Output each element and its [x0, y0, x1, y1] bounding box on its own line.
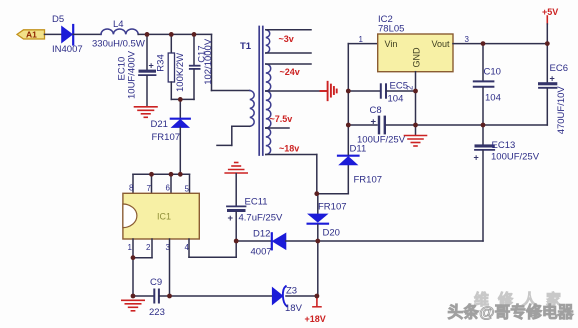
- svg-text:+: +: [474, 153, 479, 163]
- svg-text:~3v: ~3v: [279, 34, 294, 44]
- svg-text:D20: D20: [323, 228, 340, 239]
- capacitor EC10: [146, 34, 148, 69]
- svg-text:EC13: EC13: [492, 140, 516, 151]
- earth symbol on center tap: [321, 82, 337, 100]
- ground below EC10: [135, 107, 158, 118]
- IC2 78L05 regulator body: [378, 34, 453, 72]
- svg-text:2: 2: [146, 243, 151, 252]
- svg-text:C8: C8: [370, 105, 382, 116]
- capacitor EC5: [348, 90, 380, 92]
- ground below IC2: [405, 136, 427, 147]
- wire D11 cathode up to IC2 Vin node: [347, 44, 349, 155]
- svg-text:+: +: [228, 213, 234, 224]
- svg-text:6: 6: [166, 184, 171, 193]
- svg-text:D21: D21: [151, 119, 168, 130]
- svg-text:L4: L4: [113, 19, 124, 30]
- svg-text:1: 1: [128, 243, 133, 252]
- svg-text:GND: GND: [412, 47, 422, 68]
- svg-text:10UF/400V: 10UF/400V: [127, 50, 138, 99]
- svg-text:EC11: EC11: [245, 197, 268, 208]
- wire D21 to IC1 top pin rail: [133, 173, 190, 175]
- capacitor EC11: [235, 174, 237, 206]
- svg-text:100UF/25V: 100UF/25V: [491, 152, 540, 163]
- svg-text:FR107: FR107: [152, 132, 181, 143]
- wire bottom rail EC13 to D20: [318, 240, 483, 242]
- svg-text:+18V: +18V: [305, 314, 326, 324]
- svg-text:5: 5: [185, 185, 190, 194]
- capacitor EC13: [482, 125, 484, 144]
- capacitor EC6: [546, 44, 548, 82]
- svg-text:78L05: 78L05: [378, 24, 404, 35]
- svg-text:IN4007: IN4007: [52, 44, 83, 55]
- node +18V: [316, 296, 318, 307]
- wire secondary lead 2: [266, 52, 311, 54]
- IC1 pin 6 stub: [170, 174, 172, 193]
- svg-text:C10: C10: [484, 67, 501, 78]
- ground below IC1 pin 1: [122, 300, 144, 311]
- svg-text:A1: A1: [26, 30, 37, 40]
- diode D21: [179, 99, 181, 118]
- inductor L4: [101, 29, 138, 34]
- svg-text:~7.5v: ~7.5v: [270, 114, 293, 124]
- IC1 pin 1 wire down to ground: [132, 239, 134, 296]
- svg-text:~24v: ~24v: [280, 67, 300, 77]
- svg-text:C9: C9: [150, 277, 162, 288]
- wire IC2 GND pin down: [415, 72, 417, 135]
- svg-text:1: 1: [359, 35, 364, 44]
- IC1 pin 3 wire: [169, 239, 171, 296]
- wire corner down to primary: [211, 34, 213, 90]
- wire A1 to D5: [45, 33, 63, 35]
- capacitor C8: [348, 124, 377, 126]
- svg-text:FR107: FR107: [354, 175, 383, 186]
- svg-text:Z3: Z3: [286, 286, 297, 297]
- svg-text:EC6: EC6: [550, 63, 568, 74]
- wire ground rail to right: [416, 124, 548, 126]
- svg-text:+5V: +5V: [542, 7, 558, 17]
- svg-text:头条@哥专修电器: 头条@哥专修电器: [448, 303, 574, 322]
- transformer T1 core: [258, 27, 260, 156]
- IC1 pin 5 stub: [189, 174, 191, 193]
- svg-text:3: 3: [465, 35, 470, 44]
- transformer secondary winding 24v: [266, 64, 271, 91]
- IC1 pin 7 stub: [151, 174, 153, 193]
- diode D11: [340, 157, 358, 165]
- svg-text:+: +: [550, 74, 555, 84]
- svg-text:100K/2W: 100K/2W: [175, 53, 186, 92]
- wire primary bottom lead: [232, 125, 250, 127]
- svg-text:104: 104: [485, 93, 501, 104]
- svg-text:+: +: [371, 117, 377, 128]
- IC1 pin 2 wire: [151, 239, 153, 258]
- transformer secondary winding 7.5v: [266, 91, 271, 128]
- wire Vin node to IC2 pin 1: [348, 43, 377, 45]
- svg-text:104: 104: [388, 94, 404, 105]
- transformer secondary winding 18v: [266, 128, 271, 155]
- svg-text:470UF/10V: 470UF/10V: [556, 86, 567, 135]
- svg-text:Vin: Vin: [385, 39, 398, 49]
- zener Z3: [272, 288, 282, 305]
- transformer T1 primary winding: [250, 91, 254, 127]
- wire top rail L4 to corner: [138, 33, 211, 35]
- diode D5: [62, 27, 73, 43]
- wire C9 to Z3: [160, 295, 273, 297]
- svg-text:~18v: ~18v: [279, 144, 299, 154]
- svg-text:D5: D5: [52, 14, 64, 25]
- diode D20: [317, 194, 319, 214]
- svg-text:7: 7: [147, 184, 152, 193]
- svg-text:18V: 18V: [285, 303, 303, 314]
- svg-text:EC5: EC5: [390, 81, 408, 92]
- capacitor C10: [482, 44, 484, 81]
- wire secondary lead 3: [266, 63, 311, 65]
- wire IC2 pin 3 rail: [453, 43, 547, 45]
- wire R34 bottom to C17 bottom: [171, 98, 194, 100]
- svg-text:FR107: FR107: [318, 202, 347, 213]
- svg-text:223: 223: [149, 307, 165, 318]
- wire node to D11 branch: [317, 193, 349, 195]
- svg-text:Vout: Vout: [432, 39, 451, 49]
- wire ground node to C9: [133, 295, 154, 297]
- op-amp IC1 body: [123, 193, 199, 239]
- wire D5 to L4: [73, 33, 101, 35]
- svg-text:D12: D12: [253, 229, 270, 240]
- wire secondary lead top: [266, 29, 311, 31]
- inverted ground above EC11: [225, 163, 247, 174]
- svg-text:4.7uF/25V: 4.7uF/25V: [239, 213, 283, 224]
- svg-text:+: +: [149, 61, 154, 71]
- wire 18v drop to D20 node: [316, 155, 318, 194]
- svg-text:T1: T1: [240, 41, 252, 52]
- svg-text:8: 8: [129, 184, 134, 193]
- svg-text:R34: R34: [156, 54, 167, 71]
- node A1 port: [17, 30, 45, 39]
- svg-text:330uH/0.5W: 330uH/0.5W: [92, 39, 145, 50]
- svg-text:4007: 4007: [251, 247, 272, 258]
- svg-text:IC1: IC1: [157, 212, 171, 222]
- diode D12: [236, 240, 271, 242]
- wire secondary lead 18v: [266, 154, 317, 156]
- capacitor C9: [153, 290, 155, 303]
- wire secondary center tap: [266, 90, 327, 92]
- svg-text:100UF/25V: 100UF/25V: [357, 135, 406, 146]
- wire secondary lead 5 stub: [266, 127, 289, 129]
- IC1 pin 4 wire: [188, 239, 190, 257]
- IC1 pin 8 stub: [132, 174, 134, 193]
- resistor R34: [170, 34, 172, 53]
- wire Z3 to +18V node: [286, 295, 317, 297]
- svg-text:102/1000V: 102/1000V: [203, 38, 214, 85]
- capacitor C17: [193, 34, 195, 65]
- transformer secondary winding 3v: [266, 30, 270, 53]
